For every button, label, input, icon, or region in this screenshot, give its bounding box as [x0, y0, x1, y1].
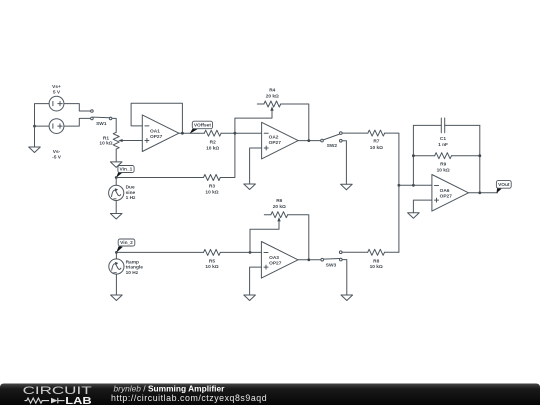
node rail to OA4 minus [398, 184, 401, 187]
svg-text:brynleb / Summing Amplifier: brynleb / Summing Amplifier [114, 383, 226, 393]
node OA3 summing junction [249, 251, 252, 254]
node output junction [478, 191, 481, 194]
svg-text:OA3: OA3 [269, 255, 279, 261]
logo resistor squiggle [25, 398, 65, 404]
node left rail junction [33, 125, 36, 128]
source V2 ramp [109, 259, 124, 274]
resistor R9 [413, 153, 479, 159]
svg-text:OA6: OA6 [440, 188, 450, 194]
svg-text:R7: R7 [373, 139, 379, 145]
svg-text:10 kΩ: 10 kΩ [205, 190, 218, 196]
voltage source Vs- [49, 119, 64, 134]
svg-text:10 kΩ: 10 kΩ [370, 264, 383, 270]
svg-text:SW1: SW1 [96, 121, 107, 127]
svg-text:R3: R3 [209, 184, 215, 190]
svg-text:OP27: OP27 [440, 194, 453, 200]
wire feedback right vertical [479, 125, 481, 192]
wire SW1 to R1 top [112, 118, 116, 132]
wire R7 to summing rail [385, 133, 399, 252]
svg-text:VOffset: VOffset [194, 123, 211, 129]
svg-text:Vs+: Vs+ [52, 84, 61, 90]
wire Vs+ left to rail [35, 104, 50, 127]
node OA2 output junction [307, 139, 310, 142]
wire Vs- left to rail [35, 125, 50, 127]
logo diode [51, 398, 58, 404]
wire OA6 output [469, 192, 498, 194]
svg-text:5 V: 5 V [53, 90, 61, 96]
ground G6 [244, 295, 256, 301]
wire Vin_2 to R5 [116, 251, 203, 253]
wire sine source to ground [115, 201, 117, 214]
op-amp OA1 [142, 115, 179, 152]
net flag Vin_2 [116, 239, 135, 253]
resistor R3 [204, 175, 221, 181]
svg-text:10 kΩ: 10 kΩ [205, 264, 218, 270]
node feedback left bottom [412, 184, 415, 187]
svg-text:10 kΩ: 10 kΩ [370, 145, 383, 151]
svg-text:R6: R6 [276, 198, 282, 204]
svg-text:Vin_1: Vin_1 [120, 167, 133, 173]
resistor R2 [204, 130, 221, 136]
wire feedback left vertical [412, 125, 414, 185]
wire SW3 bottom throw to ground [342, 260, 347, 295]
svg-text:1 nF: 1 nF [438, 142, 448, 148]
ground G9 [408, 213, 420, 219]
op-amp OA3 [261, 242, 298, 279]
svg-text:20 kΩ: 20 kΩ [266, 94, 279, 100]
wire OA1 output [179, 132, 204, 134]
svg-text:-5 V: -5 V [52, 155, 62, 161]
wire SW2 top throw to R7 [342, 132, 368, 134]
wire R2 to OA2 minus [221, 132, 262, 134]
wire OA3 output to SW3 [298, 259, 321, 261]
svg-text:http://circuitlab.com/ctzyexq8: http://circuitlab.com/ctzyexq8s9aqd [111, 393, 267, 403]
ground G1 [29, 147, 41, 153]
svg-text:SW3: SW3 [326, 262, 337, 268]
svg-text:20 kΩ: 20 kΩ [273, 204, 286, 210]
ground G5 [341, 184, 353, 190]
switch SW2 [321, 132, 342, 142]
ground G7 [341, 295, 353, 301]
svg-text:R4: R4 [269, 88, 275, 94]
wire R4 right to OA2 output [281, 104, 309, 141]
wire Vin_1 node to sine source [115, 178, 117, 186]
svg-text:R1: R1 [103, 136, 109, 142]
net flag VOut [496, 181, 511, 194]
wire R6 right to OA3 output [288, 215, 309, 260]
svg-text:OA2: OA2 [269, 134, 279, 140]
svg-text:10 kΩ: 10 kΩ [206, 145, 219, 151]
net flag VOffset [190, 121, 213, 134]
op-amp OA6 [432, 175, 469, 212]
wire rail to ground [34, 126, 36, 147]
svg-text:10 kΩ: 10 kΩ [99, 141, 112, 147]
svg-text:1 Hz: 1 Hz [126, 195, 136, 201]
svg-text:LAB: LAB [65, 396, 91, 405]
svg-text:R2: R2 [210, 140, 216, 146]
wire R3 up to summing junction [220, 133, 235, 177]
svg-text:Ramp: Ramp [126, 259, 139, 265]
node OA1 output junction [181, 132, 184, 135]
node Vin_1 [115, 176, 118, 179]
svg-text:Vs-: Vs- [53, 149, 61, 155]
node R9 left [412, 154, 415, 157]
wire ramp source to ground [115, 274, 117, 295]
voltage source Vs+ [49, 96, 64, 111]
wire SW3 top throw to R8 [342, 251, 368, 253]
capacitor C1 [413, 118, 479, 133]
ground G3 [110, 214, 122, 220]
net flag Vin_1 [116, 166, 134, 178]
wire SW2 bottom throw to ground [342, 141, 346, 185]
svg-text:R8: R8 [373, 258, 379, 264]
wire OA1 feedback loop [131, 103, 182, 133]
wire R1 bottom to ground [115, 149, 117, 162]
wire Vin_2 node to ramp source [115, 252, 117, 259]
wire R5 to OA3 minus [220, 251, 261, 253]
resistor R1 (pot) [113, 132, 142, 149]
svg-text:Due: Due [126, 185, 135, 191]
switch SW3 [321, 251, 342, 261]
wire Vin_1 to R3 [116, 177, 203, 179]
svg-text:10 Hz: 10 Hz [126, 270, 139, 276]
svg-text:OP27: OP27 [269, 140, 282, 146]
node OA2 summing junction [234, 132, 237, 135]
svg-text:triangle: triangle [126, 265, 144, 271]
svg-text:10 kΩ: 10 kΩ [437, 167, 450, 173]
svg-text:VOut: VOut [498, 182, 510, 188]
ground G2 [110, 162, 122, 168]
resistor R8 [368, 249, 385, 255]
svg-text:OA1: OA1 [150, 128, 160, 134]
svg-text:R5: R5 [209, 259, 215, 265]
resistor R6 (pot) [250, 212, 288, 253]
node OA3 output junction [307, 258, 310, 261]
wire Vs- right to SW1 pole [64, 118, 91, 126]
svg-text:R9: R9 [440, 161, 446, 167]
wire OA2 plus to ground [250, 148, 262, 184]
resistor R4 (pot) [235, 101, 281, 133]
wire rail to OA6 minus [399, 184, 432, 186]
node Vin_2 [115, 251, 118, 254]
svg-text:SW2: SW2 [327, 143, 338, 149]
ground G4 [244, 184, 256, 190]
svg-text:OP27: OP27 [269, 261, 282, 267]
wire OA2 output to SW2 [298, 140, 321, 142]
node R9 right [478, 154, 481, 157]
svg-text:C1: C1 [440, 136, 446, 142]
resistor R7 [368, 130, 385, 136]
op-amp OA2 [262, 122, 299, 159]
ground G8 [111, 295, 123, 301]
svg-text:sine: sine [126, 190, 136, 196]
svg-text:Vin_2: Vin_2 [120, 240, 133, 246]
source V1 sine [109, 185, 124, 200]
wire Vs+ right to SW1 top throw [64, 104, 91, 111]
switch SW1 [91, 110, 112, 120]
resistor R5 [204, 249, 221, 255]
wire R8 to summing rail [385, 251, 399, 253]
wire OA6 plus to ground [413, 200, 432, 213]
wire OA3 plus to ground [250, 267, 262, 295]
svg-text:OP27: OP27 [150, 134, 163, 140]
